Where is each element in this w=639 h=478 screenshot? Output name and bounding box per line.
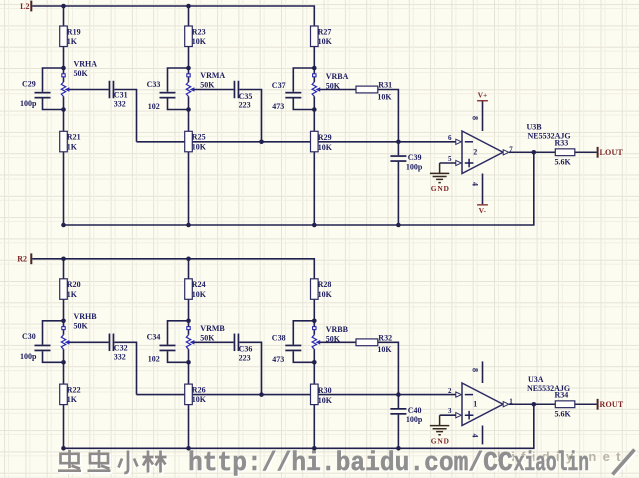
svg-text:10K: 10K: [192, 290, 207, 299]
svg-text:10K: 10K: [318, 396, 333, 405]
resistor R23: [185, 26, 207, 47]
watermark text http://hi.baidu.com/CCxiaolin/: [188, 448, 636, 478]
resistor R26: [185, 384, 207, 405]
junction: [396, 392, 401, 397]
svg-text:L2: L2: [20, 2, 29, 11]
capacitor C32: [109, 334, 128, 362]
wire wiper of VRMB to C36: [194, 341, 234, 343]
wire C39 stubs: [397, 142, 399, 225]
svg-text:332: 332: [114, 352, 126, 361]
potentiometer VRBB: [312, 321, 348, 363]
capacitor C30: [20, 332, 51, 361]
resistor R24: [185, 279, 207, 300]
svg-text:R28: R28: [318, 280, 332, 289]
wire C38 loop: [293, 321, 314, 363]
svg-text:50K: 50K: [200, 81, 215, 90]
svg-text:R26: R26: [192, 385, 206, 394]
junction: [61, 223, 66, 228]
resistor R19: [60, 26, 81, 47]
junction: [186, 223, 191, 228]
wire column 3 segments: [313, 47, 315, 226]
resistor R29: [311, 131, 333, 152]
wire C35 to mid node: [239, 90, 261, 142]
svg-text:VRHB: VRHB: [74, 312, 98, 321]
junction: [312, 360, 317, 365]
svg-text:10K: 10K: [377, 345, 392, 354]
wire series resistor to op-amp input node: [378, 342, 399, 394]
svg-text:C36: C36: [239, 345, 253, 354]
resistor R25: [185, 131, 207, 152]
wire series resistor to op-amp input node: [378, 90, 399, 142]
svg-text:V+: V+: [478, 91, 488, 100]
svg-text:http://hi.baidu.com/CC: http://hi.baidu.com/CC: [188, 448, 513, 478]
junction: [259, 392, 264, 397]
wire bottom feedback bus: [64, 404, 534, 448]
wire C29 loop: [43, 68, 64, 110]
svg-text:332: 332: [114, 100, 126, 109]
wire column 1 segments: [63, 259, 65, 449]
svg-text:C40: C40: [408, 406, 422, 415]
junction: [186, 257, 191, 262]
wire op-amp output: [509, 151, 597, 153]
svg-text:10K: 10K: [318, 290, 333, 299]
svg-text:50K: 50K: [200, 333, 215, 342]
junction: [312, 223, 317, 228]
wire wiper of VRHB to C32: [69, 341, 109, 343]
svg-text:GND: GND: [431, 184, 450, 193]
ground: [430, 163, 450, 193]
potentiometer VRHA: [61, 59, 97, 109]
U3A pin 2 (inverting input): [448, 387, 461, 397]
wire wiper of VRBA to series resistor: [320, 89, 356, 91]
svg-text:10K: 10K: [318, 37, 333, 46]
svg-text:LOUT: LOUT: [600, 148, 624, 157]
watermark text chong-chong-xiao-lin (drawn strokes): [58, 450, 83, 472]
svg-text:8: 8: [471, 116, 480, 120]
wire C32 to mid node: [114, 342, 136, 394]
capacitor C29: [20, 79, 51, 108]
svg-text:VRHA: VRHA: [74, 59, 98, 68]
svg-text:6: 6: [448, 134, 452, 142]
svg-text:100p: 100p: [20, 99, 37, 108]
svg-text:4: 4: [471, 182, 480, 186]
svg-text:10K: 10K: [192, 37, 207, 46]
svg-text:100p: 100p: [406, 415, 423, 424]
U3A output pin 1: [503, 397, 513, 407]
capacitor C35: [234, 81, 253, 110]
svg-text:C39: C39: [408, 153, 422, 162]
svg-text:5.6K: 5.6K: [555, 409, 572, 418]
svg-text:VRMB: VRMB: [200, 324, 225, 333]
resistor R30: [311, 384, 333, 405]
resistor R27: [311, 26, 333, 47]
wire C34 loop: [168, 321, 189, 363]
svg-text:C30: C30: [22, 332, 36, 341]
svg-text:R22: R22: [67, 385, 81, 394]
svg-text:1: 1: [473, 399, 477, 408]
svg-text:R25: R25: [192, 133, 206, 142]
U3B output pin 7: [503, 145, 513, 155]
ground: [430, 415, 450, 445]
svg-text:8: 8: [471, 368, 480, 372]
wire column 1 segments: [63, 6, 65, 225]
junction: [186, 107, 191, 112]
svg-text:R32: R32: [378, 334, 392, 343]
port LOUT: [597, 147, 624, 158]
capacitor C40: [390, 406, 423, 424]
junction: [61, 66, 66, 71]
svg-text:473: 473: [272, 102, 284, 111]
svg-text:R21: R21: [67, 133, 81, 142]
op-amp U3A: [462, 383, 503, 426]
junction: [532, 402, 537, 407]
U3A pin 4 stem: [471, 426, 483, 445]
wire non-inverting input to ground: [440, 414, 456, 416]
svg-text:V-: V-: [479, 206, 487, 215]
svg-text:GND: GND: [431, 436, 450, 445]
junction: [532, 150, 537, 155]
wire non-inverting input to ground: [440, 162, 456, 164]
svg-text:223: 223: [239, 101, 251, 110]
U3B pin 4 stem: [471, 174, 483, 205]
svg-text:100p: 100p: [406, 162, 423, 171]
wire top input rail: [32, 6, 314, 26]
wire op-amp output: [509, 403, 597, 405]
U3A pin 3 (non-inverting input): [448, 407, 461, 418]
svg-text:50K: 50K: [74, 322, 89, 331]
U3A pin 8 stem: [471, 361, 483, 383]
svg-text:R33: R33: [555, 139, 569, 148]
junction: [312, 319, 317, 324]
resistor R28: [311, 279, 333, 300]
U3A designator labels: [527, 375, 570, 393]
junction: [259, 140, 264, 145]
port ROUT: [597, 399, 624, 410]
svg-text:C31: C31: [114, 91, 128, 100]
U3B designator labels: [527, 123, 571, 141]
svg-text:2: 2: [448, 387, 452, 395]
U3B pin 6 (inverting input): [448, 134, 461, 144]
svg-text:3: 3: [448, 407, 452, 415]
svg-text:C34: C34: [147, 333, 161, 342]
capacitor C33: [147, 80, 176, 111]
junction: [61, 107, 66, 112]
svg-text:R30: R30: [318, 386, 332, 395]
resistor R33: [555, 139, 575, 167]
capacitor C38: [272, 334, 302, 364]
op-amp U3B: [462, 131, 503, 174]
svg-text:C38: C38: [272, 334, 286, 343]
power port V+: [477, 91, 488, 102]
capacitor C36: [234, 334, 253, 363]
svg-text:5: 5: [448, 155, 452, 163]
junction: [186, 66, 191, 71]
junction: [186, 446, 191, 451]
potentiometer VRMA: [186, 68, 225, 110]
svg-text:R29: R29: [318, 133, 332, 142]
svg-text:223: 223: [239, 353, 251, 362]
junction: [396, 223, 401, 228]
svg-text:10K: 10K: [192, 395, 207, 404]
junction: [61, 257, 66, 262]
svg-text:R23: R23: [192, 27, 206, 36]
svg-text:VRBA: VRBA: [326, 72, 349, 81]
wire C37 loop: [293, 68, 314, 110]
junction: [186, 4, 191, 9]
junction: [312, 446, 317, 451]
svg-text:1K: 1K: [67, 395, 78, 404]
junction: [312, 66, 317, 71]
svg-text:4: 4: [471, 434, 480, 438]
potentiometer VRHB: [61, 312, 97, 362]
svg-text:C33: C33: [147, 80, 161, 89]
capacitor C37: [272, 81, 302, 111]
svg-text:ROUT: ROUT: [600, 400, 624, 409]
svg-text:U3A: U3A: [528, 375, 544, 384]
wire C30 loop: [43, 321, 64, 363]
wire column 3 segments: [313, 299, 315, 448]
wire top feedback bus: [64, 152, 534, 225]
capacitor C39: [390, 153, 423, 171]
capacitor C34: [147, 333, 176, 364]
svg-text:R19: R19: [67, 27, 81, 36]
svg-text:R34: R34: [555, 391, 569, 400]
wire C33 loop: [168, 68, 189, 110]
svg-text:xiaolin: xiaolin: [514, 448, 589, 478]
wire bottom mid row (inverting input net): [137, 394, 456, 396]
capacitor C31: [109, 81, 128, 109]
junction: [186, 360, 191, 365]
resistor R34: [555, 391, 575, 419]
svg-text:R2: R2: [17, 255, 27, 264]
junction: [186, 319, 191, 324]
svg-text:102: 102: [148, 102, 160, 111]
junction: [396, 446, 401, 451]
svg-text:R20: R20: [67, 280, 81, 289]
svg-text:R31: R31: [378, 81, 392, 90]
svg-text:473: 473: [272, 355, 284, 364]
resistor R21: [60, 131, 81, 152]
svg-text:VRMA: VRMA: [200, 71, 225, 80]
svg-text:5.6K: 5.6K: [555, 157, 572, 166]
resistor R32: [356, 334, 392, 355]
wire top mid row (inverting input net): [137, 141, 456, 143]
wire bottom input rail: [32, 259, 314, 279]
svg-text:1K: 1K: [67, 142, 78, 151]
resistor R22: [60, 384, 81, 405]
svg-text:1K: 1K: [67, 290, 78, 299]
svg-text:C32: C32: [114, 344, 128, 353]
resistor R20: [60, 279, 81, 300]
svg-text:10K: 10K: [192, 142, 207, 151]
junction: [61, 360, 66, 365]
svg-text:10K: 10K: [377, 92, 392, 101]
potentiometer VRBA: [312, 68, 348, 110]
svg-text:C37: C37: [272, 81, 286, 90]
svg-text:1K: 1K: [67, 37, 78, 46]
junction: [61, 319, 66, 324]
port R2: [17, 253, 32, 264]
wire column 2 segments: [188, 259, 190, 449]
junction: [61, 446, 66, 451]
wire C36 to mid node: [239, 342, 261, 394]
power port V-: [477, 204, 488, 215]
wire wiper of VRMA to C35: [194, 89, 234, 91]
junction: [312, 107, 317, 112]
watermark hifidiy.net (faint): [497, 449, 627, 464]
wire wiper of VRBB to series resistor: [320, 341, 356, 343]
svg-text:R27: R27: [318, 27, 332, 36]
svg-text:100p: 100p: [20, 352, 37, 361]
svg-text:R24: R24: [192, 280, 206, 289]
U3B pin 5 (non-inverting input): [448, 155, 461, 166]
svg-text:10K: 10K: [318, 143, 333, 152]
svg-text:50K: 50K: [74, 69, 89, 78]
U3B pin 8 stem: [471, 101, 483, 131]
junction: [396, 140, 401, 145]
potentiometer VRMB: [186, 321, 225, 363]
svg-text:C35: C35: [239, 92, 253, 101]
wire C40 stubs: [397, 395, 399, 449]
svg-text:2: 2: [473, 147, 477, 156]
svg-text:C29: C29: [22, 79, 36, 88]
port L2: [20, 1, 32, 12]
wire column 2 segments: [188, 6, 190, 225]
svg-text:VRBB: VRBB: [326, 325, 349, 334]
wire wiper of VRHA to C31: [69, 89, 109, 91]
junction: [61, 4, 66, 9]
wire C31 to mid node: [114, 90, 136, 142]
svg-text:U3B: U3B: [527, 123, 543, 132]
svg-text:102: 102: [148, 355, 160, 364]
resistor R31: [356, 81, 392, 102]
